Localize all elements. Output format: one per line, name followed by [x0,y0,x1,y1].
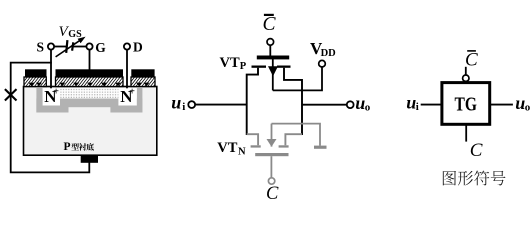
wire VTP source to left rail [247,68,258,135]
battery VGS plates [66,40,73,53]
induced channel [60,88,118,99]
oxide layer S [24,77,46,87]
svg-text:D: D [133,39,143,54]
wire box to u_o [490,104,513,106]
wire VGS source to G [73,46,86,48]
label C-bar top [264,14,274,16]
transistor VTN (gray) [247,124,327,185]
svg-text:VT: VT [220,55,240,71]
wire VTP substrate to VDD [273,67,322,90]
svg-text:i: i [416,101,419,113]
wire S lead [50,50,52,89]
svg-text:C: C [470,140,483,161]
svg-text:DD: DD [321,48,337,59]
terminal G [86,43,92,49]
terminal u_i [188,101,195,108]
caption 图形符号 [443,171,456,186]
wire u_i to box [421,104,442,106]
VTN substrate arrow [271,124,273,147]
oxide layer D [131,77,155,87]
wire right rail to VTN drain [285,134,302,145]
VTP source segment [252,66,267,68]
wire S to VGS source [54,46,66,48]
svg-text:+: + [53,86,59,97]
wire C-bar to box [465,67,467,75]
wire right rail to u_o [302,104,347,106]
svg-text:i: i [182,101,185,113]
transistor VTP gate bar [257,56,289,60]
svg-text:N: N [238,147,246,158]
terminal C-bar [267,39,274,46]
N+ source region [43,88,60,106]
svg-text:P: P [240,61,247,72]
terminal S [48,43,54,49]
terminal u_o [347,101,354,108]
wire [11,63,90,173]
inverter bubble on C-bar input [463,75,469,81]
metal contact S [25,69,47,77]
metal contact D [131,69,154,77]
VTP drain segment [277,66,291,68]
wire C-bar to gate [269,45,271,55]
terminal D [124,43,130,49]
oxide pattern marks [29,83,35,87]
svg-text:C: C [465,50,478,71]
wire D lead [126,50,128,89]
svg-text:+: + [129,86,135,97]
svg-text:TG: TG [455,94,478,115]
label C-bar [467,50,476,52]
svg-text:o: o [525,101,530,113]
terminal VDD [319,60,326,67]
svg-text:C: C [266,184,279,201]
substrate bottom contact [81,155,98,163]
wire VTP drain to right rail [284,68,302,135]
VTN substrate wire to body terminal [272,124,321,146]
svg-text:C: C [263,14,277,35]
wire VTN gate to C [270,156,272,177]
TG box [442,83,490,125]
oxide layer G [56,77,124,87]
wire u_i to left rail [195,104,246,106]
VTN source segment [251,145,261,147]
svg-text:VT: VT [217,140,237,156]
terminal C [268,178,274,184]
VTP substrate arrow [272,59,274,90]
svg-text:o: o [365,101,371,113]
wire G lead [89,50,91,71]
metal contact G [56,69,124,77]
wire left rail to VTN source [247,134,258,145]
VTN body terminal bar [314,146,327,149]
substrate not-connected X mark [5,89,17,100]
svg-text:GS: GS [68,29,82,40]
svg-text:S: S [37,39,45,54]
wire box to C [465,124,467,141]
VTN drain segment [279,145,289,147]
VGS adjustment arrow [56,41,80,57]
svg-text:G: G [95,40,106,55]
P substrate body [24,87,157,156]
svg-text:u: u [171,92,181,112]
svg-text:P: P [64,141,71,153]
VTN gate bar [255,153,288,156]
depletion region [36,88,142,113]
N+ drain region [118,88,136,106]
